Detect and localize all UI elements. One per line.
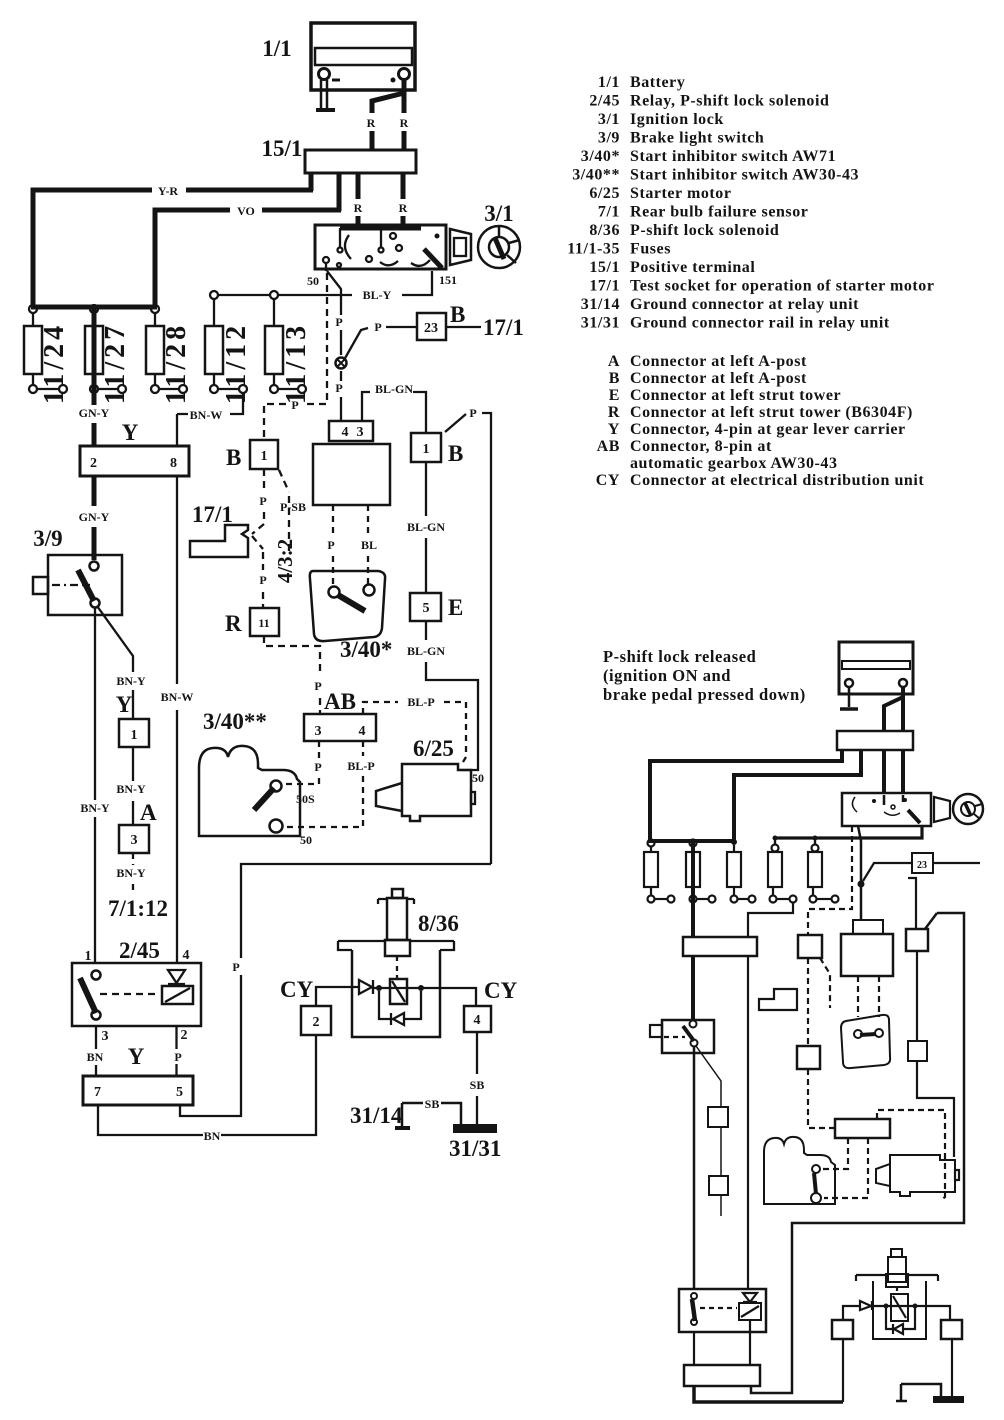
svg-text:11/12: 11/12 xyxy=(221,322,252,404)
svg-text:Y: Y xyxy=(116,692,133,717)
svg-text:Brake light switch: Brake light switch xyxy=(630,130,764,147)
svg-text:BL-GN: BL-GN xyxy=(407,644,445,658)
svg-text:31/31: 31/31 xyxy=(449,1136,501,1161)
svg-text:3/9: 3/9 xyxy=(33,526,62,551)
svg-text:BL-P: BL-P xyxy=(407,695,434,709)
svg-text:BN-Y: BN-Y xyxy=(116,782,146,796)
svg-text:7/1:12: 7/1:12 xyxy=(108,896,168,921)
svg-text:Connector at left A-post: Connector at left A-post xyxy=(630,353,807,370)
svg-text:31/31: 31/31 xyxy=(581,315,620,332)
svg-text:brake pedal pressed down): brake pedal pressed down) xyxy=(603,685,806,704)
svg-text:2: 2 xyxy=(90,456,97,471)
svg-text:11: 11 xyxy=(258,616,269,630)
svg-text:CY: CY xyxy=(596,472,620,489)
svg-text:1: 1 xyxy=(423,442,430,457)
svg-text:8: 8 xyxy=(170,456,177,471)
svg-text:R: R xyxy=(608,404,620,421)
svg-text:P: P xyxy=(174,1050,181,1064)
svg-text:BL-GN: BL-GN xyxy=(375,382,413,396)
svg-text:1/1: 1/1 xyxy=(598,74,620,91)
svg-text:Ground connector at relay unit: Ground connector at relay unit xyxy=(630,296,859,313)
svg-text:P: P xyxy=(314,760,321,774)
svg-text:Connector, 4-pin at gear lever: Connector, 4-pin at gear lever carrier xyxy=(630,421,906,438)
svg-text:17/1: 17/1 xyxy=(483,315,524,340)
svg-text:6/25: 6/25 xyxy=(589,185,620,202)
svg-text:P-shift lock solenoid: P-shift lock solenoid xyxy=(630,222,779,239)
svg-text:BN-Y: BN-Y xyxy=(116,866,146,880)
svg-text:2/45: 2/45 xyxy=(589,93,620,110)
svg-text:P: P xyxy=(314,679,321,693)
svg-text:BN: BN xyxy=(204,1129,221,1143)
svg-text:Y-R: Y-R xyxy=(158,184,179,198)
svg-text:3: 3 xyxy=(102,1029,109,1044)
svg-text:4: 4 xyxy=(183,948,190,963)
svg-text:5: 5 xyxy=(176,1085,183,1100)
svg-text:1: 1 xyxy=(261,449,268,464)
svg-text:7/1: 7/1 xyxy=(598,204,620,221)
svg-text:B: B xyxy=(448,441,463,466)
svg-text:Connector at electrical distri: Connector at electrical distribution uni… xyxy=(630,472,924,489)
svg-text:BN: BN xyxy=(87,1050,104,1064)
svg-text:VO: VO xyxy=(237,204,255,218)
svg-text:SB: SB xyxy=(425,1097,440,1111)
svg-text:P: P xyxy=(335,381,342,395)
svg-text:151: 151 xyxy=(439,273,457,287)
svg-text:8/36: 8/36 xyxy=(418,911,459,936)
svg-text:A: A xyxy=(608,353,620,370)
svg-text:50: 50 xyxy=(472,771,484,785)
svg-text:BL: BL xyxy=(361,538,377,552)
svg-text:23: 23 xyxy=(917,860,927,871)
svg-text:R: R xyxy=(400,116,409,130)
svg-text:B: B xyxy=(226,445,241,470)
svg-text:R: R xyxy=(399,201,408,215)
svg-text:3: 3 xyxy=(357,425,364,440)
svg-text:GN-Y: GN-Y xyxy=(79,510,110,524)
svg-text:SB: SB xyxy=(470,1078,485,1092)
svg-text:BN-W: BN-W xyxy=(161,690,194,704)
svg-text:11/27: 11/27 xyxy=(100,322,131,404)
svg-text:3/1: 3/1 xyxy=(484,201,513,226)
svg-text:Y: Y xyxy=(122,420,139,445)
svg-text:4: 4 xyxy=(342,425,349,440)
svg-text:17/1: 17/1 xyxy=(589,278,620,295)
svg-text:Connector, 8-pin at: Connector, 8-pin at xyxy=(630,438,772,455)
svg-text:automatic gearbox AW30-43: automatic gearbox AW30-43 xyxy=(630,455,838,472)
svg-text:11/28: 11/28 xyxy=(161,322,192,404)
svg-text:P: P xyxy=(335,315,342,329)
svg-text:B: B xyxy=(450,302,465,327)
svg-text:BL-GN: BL-GN xyxy=(407,520,445,534)
svg-text:Battery: Battery xyxy=(630,74,685,91)
svg-text:50: 50 xyxy=(307,274,319,288)
svg-text:Connector at left strut tower: Connector at left strut tower (B6304F) xyxy=(630,404,913,421)
svg-text:Y: Y xyxy=(608,421,620,438)
svg-text:GN-Y: GN-Y xyxy=(79,406,110,420)
svg-text:17/1: 17/1 xyxy=(192,502,233,527)
svg-text:Starter motor: Starter motor xyxy=(630,185,731,202)
svg-text:6/25: 6/25 xyxy=(413,736,454,761)
svg-text:3/40**: 3/40** xyxy=(572,167,620,184)
svg-text:1: 1 xyxy=(85,949,92,964)
svg-text:7: 7 xyxy=(94,1085,101,1100)
svg-text:Relay, P-shift lock solenoid: Relay, P-shift lock solenoid xyxy=(630,93,829,110)
svg-text:1: 1 xyxy=(131,728,138,743)
svg-text:P-shift lock released: P-shift lock released xyxy=(603,647,756,666)
svg-text:3/40**: 3/40** xyxy=(203,709,267,734)
svg-text:E: E xyxy=(609,387,620,404)
svg-text:3/9: 3/9 xyxy=(598,130,620,147)
svg-text:4: 4 xyxy=(474,1013,481,1028)
svg-text:BL-P: BL-P xyxy=(347,759,374,773)
svg-text:BL-Y: BL-Y xyxy=(363,288,392,302)
svg-text:E: E xyxy=(448,595,463,620)
svg-text:15/1: 15/1 xyxy=(589,259,620,276)
svg-text:A: A xyxy=(140,800,157,825)
svg-text:31/14: 31/14 xyxy=(350,1103,403,1128)
svg-text:1/1: 1/1 xyxy=(262,36,291,61)
svg-text:CY: CY xyxy=(484,978,518,1003)
svg-text:3/40*: 3/40* xyxy=(340,637,392,662)
svg-text:5: 5 xyxy=(423,601,430,616)
svg-text:Test socket for operation of s: Test socket for operation of starter mot… xyxy=(630,278,935,295)
svg-text:Rear bulb failure sensor: Rear bulb failure sensor xyxy=(630,204,808,221)
svg-text:R: R xyxy=(367,116,376,130)
svg-text:P: P xyxy=(259,573,266,587)
svg-text:P: P xyxy=(259,494,266,508)
svg-text:Start inhibitor switch AW30-43: Start inhibitor switch AW30-43 xyxy=(630,167,859,184)
svg-text:Ignition lock: Ignition lock xyxy=(630,111,724,128)
svg-text:31/14: 31/14 xyxy=(581,296,620,313)
svg-text:P: P xyxy=(469,406,476,420)
svg-text:4: 4 xyxy=(359,724,366,739)
svg-text:BN-W: BN-W xyxy=(190,408,223,422)
svg-text:11/13: 11/13 xyxy=(281,322,312,404)
svg-text:AB: AB xyxy=(597,438,620,455)
svg-text:Positive terminal: Positive terminal xyxy=(630,259,755,276)
svg-text:(ignition ON and: (ignition ON and xyxy=(603,666,731,685)
svg-text:50: 50 xyxy=(300,833,312,847)
svg-text:P: P xyxy=(374,320,381,334)
svg-text:BN-Y: BN-Y xyxy=(116,674,146,688)
svg-text:23: 23 xyxy=(424,321,438,336)
svg-text:11/1-35: 11/1-35 xyxy=(567,241,620,258)
svg-text:Ground connector rail in relay: Ground connector rail in relay unit xyxy=(630,315,890,332)
svg-text:50S: 50S xyxy=(296,792,315,806)
svg-text:2: 2 xyxy=(313,1015,320,1030)
svg-text:Fuses: Fuses xyxy=(630,241,671,258)
svg-text:AB: AB xyxy=(324,689,356,714)
svg-text:Connector at left strut tower: Connector at left strut tower xyxy=(630,387,841,404)
svg-text:8/36: 8/36 xyxy=(589,222,620,239)
svg-text:Y: Y xyxy=(128,1044,145,1069)
svg-text:BN-Y: BN-Y xyxy=(80,801,110,815)
svg-text:3/1: 3/1 xyxy=(598,111,620,128)
svg-text:P: P xyxy=(232,960,239,974)
svg-text:2: 2 xyxy=(181,1028,188,1043)
svg-text:CY: CY xyxy=(280,977,314,1002)
svg-text:15/1: 15/1 xyxy=(262,136,303,161)
svg-text:3: 3 xyxy=(315,724,322,739)
svg-text:P: P xyxy=(327,538,334,552)
svg-text:Connector at left A-post: Connector at left A-post xyxy=(630,370,807,387)
svg-text:3: 3 xyxy=(131,833,138,848)
svg-text:R: R xyxy=(354,201,363,215)
svg-text:Start inhibitor switch AW71: Start inhibitor switch AW71 xyxy=(630,148,836,165)
svg-text:4/3:2: 4/3:2 xyxy=(273,539,297,583)
svg-text:B: B xyxy=(609,370,620,387)
svg-text:11/24: 11/24 xyxy=(39,322,70,404)
svg-text:P-SB: P-SB xyxy=(280,500,306,514)
svg-text:3/40*: 3/40* xyxy=(581,148,620,165)
svg-text:2/45: 2/45 xyxy=(119,938,160,963)
svg-text:R: R xyxy=(225,611,242,636)
